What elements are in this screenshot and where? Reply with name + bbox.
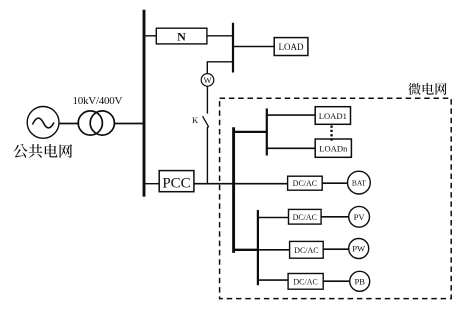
bus B1 main 400V bus bbox=[143, 10, 146, 197]
bus B2 microgrid bus bbox=[232, 127, 235, 253]
node stub bus top bbox=[232, 23, 234, 73]
svg-text:K: K bbox=[192, 115, 199, 125]
svg-text:PB: PB bbox=[354, 277, 365, 287]
wire W to switch bbox=[206, 86, 208, 113]
svg-text:PW: PW bbox=[352, 244, 366, 254]
converter DC/AC 4 bbox=[288, 274, 323, 290]
svg-text:W: W bbox=[203, 75, 211, 85]
PCC box bbox=[159, 171, 194, 192]
wire DC/AC1 to BAT bbox=[322, 182, 347, 184]
converter DC/AC 2 bbox=[289, 209, 322, 224]
wire to DC/AC2 bbox=[258, 217, 289, 219]
converter DC/AC 3 bbox=[290, 241, 324, 258]
svg-text:LOAD: LOAD bbox=[279, 42, 304, 52]
wire DC/AC4 to PB bbox=[323, 280, 350, 282]
sine symbol bbox=[33, 118, 55, 128]
load box LOAD1 bbox=[315, 107, 350, 125]
node converters stub bbox=[257, 210, 259, 285]
svg-text:DC/AC: DC/AC bbox=[293, 213, 317, 222]
battery BAT bbox=[348, 171, 371, 194]
generator PV bbox=[349, 206, 370, 227]
wire bus B2 bottom to converters stub bbox=[234, 249, 258, 251]
svg-text:DC/AC: DC/AC bbox=[294, 246, 318, 255]
svg-text:10kV/400V: 10kV/400V bbox=[73, 95, 123, 107]
generator PW bbox=[349, 239, 369, 259]
load box LOAD bbox=[274, 38, 308, 56]
wire PCC to DC/AC1 (crosses boundary and bus B2) bbox=[194, 183, 288, 185]
svg-text:BAT: BAT bbox=[352, 179, 367, 188]
svg-text:PV: PV bbox=[354, 212, 366, 222]
wire to DC/AC3 bbox=[258, 249, 290, 251]
wire transformer to bus bbox=[115, 123, 143, 125]
load box LOADn bbox=[315, 139, 351, 157]
wire bus to PCC bbox=[144, 183, 159, 185]
wire to LOADn bbox=[267, 147, 315, 149]
wattmeter W bbox=[201, 74, 214, 87]
svg-text:N: N bbox=[177, 29, 186, 43]
wire to DC/AC4 bbox=[258, 279, 288, 281]
microgrid dashed boundary bbox=[220, 98, 452, 298]
wire DC/AC2 to PV bbox=[321, 216, 349, 218]
svg-text:DC/AC: DC/AC bbox=[293, 278, 317, 287]
svg-text:DC/AC: DC/AC bbox=[293, 179, 317, 188]
label 公共电网 bbox=[13, 144, 72, 158]
wire N to stub bbox=[207, 35, 232, 37]
svg-text:LOAD1: LOAD1 bbox=[319, 111, 347, 121]
converter DC/AC 1 bbox=[288, 176, 323, 190]
ellipsis dots bbox=[330, 126, 332, 141]
wire stub to W branch bbox=[207, 62, 233, 74]
node loads stub bbox=[266, 108, 268, 155]
generator PB bbox=[350, 271, 370, 291]
wire to LOAD1 bbox=[267, 114, 315, 116]
wire bus to N bbox=[144, 35, 156, 37]
wire stub to LOAD bbox=[233, 46, 274, 48]
label 微电网 bbox=[408, 83, 446, 95]
wire switch to PCC line bbox=[206, 127, 208, 184]
wire source to transformer bbox=[59, 123, 80, 125]
transformer T1 10kV/400V bbox=[78, 111, 102, 135]
AC source 公共电网 bbox=[27, 107, 59, 139]
switch K blade bbox=[203, 116, 209, 127]
wire bus B2 to loads stub bbox=[234, 131, 267, 133]
breaker N bbox=[156, 28, 207, 44]
wire DC/AC3 to PW bbox=[323, 248, 349, 250]
svg-text:LOADn: LOADn bbox=[319, 144, 348, 154]
svg-text:PCC: PCC bbox=[162, 176, 190, 192]
